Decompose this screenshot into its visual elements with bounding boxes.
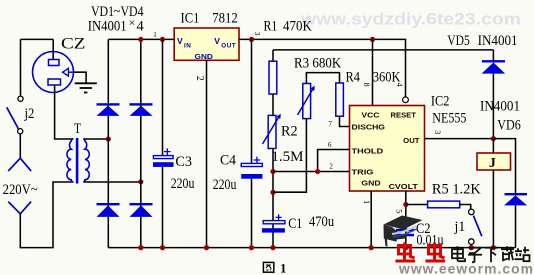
ground	[74, 72, 97, 92]
wire: relay J branches	[492, 139, 494, 248]
svg-text:VD5: VD5	[447, 33, 470, 49]
svg-text:OUT: OUT	[403, 138, 420, 145]
wire: THOLD	[318, 150, 350, 172]
node rail junctions	[138, 245, 496, 250]
svg-text:IC1: IC1	[181, 11, 200, 27]
wire: VCC drop pin 8	[372, 39, 374, 105]
switch j1	[469, 209, 482, 244]
wire: left column down to switch j2	[20, 39, 22, 96]
svg-text:4: 4	[137, 18, 145, 34]
svg-text:R3 680K: R3 680K	[294, 56, 342, 72]
primary coil	[67, 139, 73, 182]
svg-text:×: ×	[129, 16, 136, 30]
wire: R1 top rail (to VD5)	[273, 49, 493, 51]
xia	[485, 248, 498, 263]
node VCC junction on output rail	[370, 37, 375, 42]
resistor R3 (variable)	[298, 84, 315, 119]
wire: R4 bottom to DISCHG	[340, 116, 350, 126]
svg-text:j2: j2	[24, 106, 35, 122]
label R2 value	[271, 149, 305, 162]
wire: R2 bottom chain	[272, 149, 274, 248]
svg-text:2: 2	[329, 163, 333, 171]
wire: R1 top stub	[272, 50, 274, 61]
wire: NE555 GND drop pin 1	[370, 191, 372, 248]
wire: j1 bottom	[470, 244, 472, 247]
socket CZ circle	[33, 52, 74, 93]
wire: R3 R4 top bar	[306, 73, 339, 84]
svg-text:C4: C4	[220, 152, 237, 168]
relay J	[477, 153, 511, 170]
svg-text:3: 3	[433, 130, 442, 134]
svg-text:V: V	[177, 36, 183, 46]
wire: R5 left lead	[406, 204, 428, 206]
wire: output rail	[239, 39, 406, 96]
AC source 220V~ upper prong	[8, 158, 31, 171]
resistor R1	[269, 61, 277, 94]
svg-text:4: 4	[395, 83, 404, 87]
wire: secondary top lead	[84, 138, 108, 140]
svg-text:THOLD: THOLD	[352, 149, 384, 156]
svg-text:R2: R2	[281, 124, 298, 140]
svg-text:7: 7	[329, 120, 333, 128]
core	[76, 138, 79, 184]
node rail-bridge junction	[138, 37, 143, 42]
wire: VD6 branch	[493, 139, 515, 248]
diode VD3	[97, 203, 120, 217]
watermark graduation cap logo	[384, 216, 423, 247]
resistor R5	[428, 201, 460, 208]
svg-text:470u: 470u	[309, 214, 334, 230]
svg-text:IN4001: IN4001	[478, 33, 518, 49]
watermark site name black characters	[452, 246, 530, 262]
svg-text:1: 1	[280, 261, 287, 275]
zi	[469, 248, 481, 263]
node secondary top junction	[106, 136, 111, 141]
zhan	[515, 247, 530, 262]
wire: secondary bottom lead	[84, 181, 141, 183]
caption figure 1	[263, 261, 286, 275]
svg-text:CVOLT: CVOLT	[389, 184, 419, 191]
wire: R1 to R2	[272, 94, 274, 115]
node rail-C3 junction	[160, 37, 165, 42]
node output-C4 junction	[249, 37, 254, 42]
dian	[452, 249, 463, 258]
capacitor C2	[396, 229, 414, 237]
zai	[501, 246, 514, 260]
RESET bubble	[403, 97, 409, 103]
timer IC2 NE555	[350, 106, 425, 192]
wire: bridge right vertical	[140, 39, 142, 247]
AC source 220V~ lower prong	[8, 202, 31, 214]
diode VD4	[130, 203, 153, 217]
resistor R2 (variable)	[263, 114, 281, 149]
svg-text:RESET: RESET	[391, 112, 417, 119]
svg-text:R4: R4	[346, 70, 361, 86]
CZ right pin	[63, 68, 69, 76]
svg-text:www.sydzdiy.6te23.com: www.sydzdiy.6te23.com	[300, 11, 521, 29]
wire: input rail	[108, 38, 174, 40]
svg-text:J: J	[489, 155, 496, 170]
svg-text:6: 6	[328, 141, 332, 149]
svg-text:GND: GND	[195, 52, 213, 61]
transformer T	[67, 121, 89, 183]
svg-text:3: 3	[253, 32, 262, 36]
op-amp IC1 7812 regulator	[174, 28, 239, 61]
svg-text:NE555: NE555	[432, 111, 466, 127]
wire: VD5 branch	[492, 50, 494, 139]
svg-text:IN4001: IN4001	[480, 99, 520, 115]
svg-text:220V~: 220V~	[3, 182, 38, 198]
svg-text:TRIG: TRIG	[352, 169, 375, 176]
capacitor C4	[241, 157, 262, 179]
wire: CVOLT drop pin 5	[405, 191, 407, 248]
svg-text:DISCHG: DISCHG	[352, 125, 386, 132]
svg-text:R1: R1	[264, 18, 278, 34]
svg-text:220u: 220u	[171, 176, 195, 192]
svg-text:C1: C1	[288, 216, 302, 232]
svg-text:OUT: OUT	[221, 43, 236, 50]
resistor R4	[336, 83, 344, 116]
watermark chongchong red characters	[396, 243, 446, 262]
CZ top pin	[52, 53, 54, 60]
svg-text:CZ: CZ	[61, 36, 86, 53]
node TRIG junction	[270, 169, 275, 174]
CZ bottom pin	[48, 79, 61, 85]
svg-text:j1: j1	[454, 219, 466, 235]
svg-text:VD6: VD6	[497, 117, 521, 133]
wire: C3 branch	[162, 39, 164, 247]
node CVOLT-R5 junction	[403, 202, 408, 207]
svg-text:R5 1.2K: R5 1.2K	[432, 181, 481, 197]
svg-text:VCC: VCC	[361, 112, 379, 119]
wire: bridge left vertical	[107, 39, 109, 247]
wire: AC bottom return	[20, 182, 73, 248]
diode VD6	[504, 193, 527, 205]
wire: R5 right lead	[460, 205, 471, 210]
switch j2	[7, 96, 23, 134]
svg-text:220u: 220u	[213, 177, 237, 193]
svg-text:1: 1	[362, 200, 371, 204]
node OUT junction	[491, 136, 496, 141]
node R3 bottom junction	[270, 190, 275, 195]
svg-text:IN: IN	[184, 43, 191, 50]
node secondary bottom junction	[138, 179, 143, 184]
secondary coil	[83, 139, 89, 182]
diode VD5	[482, 60, 506, 74]
wire: CZ bottom to transformer primary	[55, 93, 74, 140]
svg-text:IN4001: IN4001	[88, 18, 127, 34]
svg-text:IC2: IC2	[431, 93, 450, 109]
wire: R3 bottom to C1 node	[273, 119, 306, 193]
diode VD1	[97, 103, 120, 116]
wire: C4 branch	[251, 39, 253, 247]
svg-text:T: T	[74, 121, 81, 137]
diode VD2	[130, 103, 153, 116]
svg-text:1: 1	[153, 31, 157, 39]
svg-text:V: V	[214, 36, 220, 46]
node THOLD-TRIG junction	[315, 169, 320, 174]
svg-text:470K: 470K	[283, 18, 312, 34]
svg-text:1.5M: 1.5M	[271, 149, 303, 165]
wire: AC top rail to CZ	[21, 38, 54, 40]
wire: CZ top drop	[52, 39, 54, 52]
wire: bottom ground rail	[108, 247, 515, 249]
svg-text:5: 5	[394, 209, 403, 213]
svg-text:7812: 7812	[212, 11, 238, 27]
wire: IC1 GND drop	[206, 60, 208, 247]
wire: TRIG	[273, 171, 350, 173]
capacitor C3	[153, 148, 174, 167]
wire: OUT pin 3	[425, 138, 494, 140]
svg-text:www.eeworm.com: www.eeworm.com	[398, 262, 534, 275]
wire: j2 to AC source	[19, 134, 21, 158]
capacitor C1	[262, 214, 285, 232]
svg-text:2: 2	[194, 76, 205, 81]
svg-text:C3: C3	[175, 154, 192, 170]
svg-text:8: 8	[362, 83, 371, 87]
svg-text:GND: GND	[361, 180, 380, 187]
